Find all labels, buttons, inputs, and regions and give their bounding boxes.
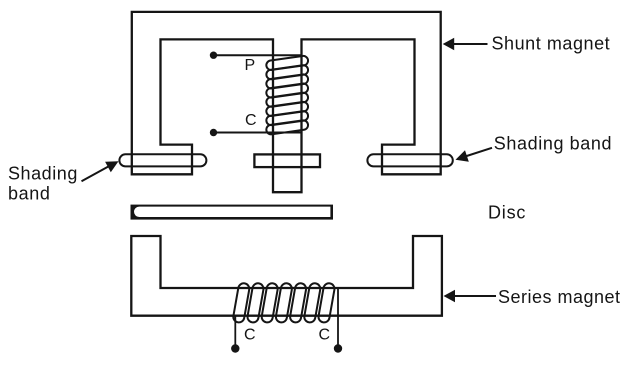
shunt magnet core (E-shape) (132, 12, 441, 192)
svg-text:Series magnet: Series magnet (498, 287, 621, 307)
pole crossbar on central limb (254, 154, 320, 167)
node C terminal dot (shunt) (210, 129, 217, 136)
svg-text:Disc: Disc (488, 202, 526, 222)
svg-text:Shading: Shading (8, 163, 78, 183)
svg-text:C: C (319, 327, 331, 344)
svg-text:P: P (245, 57, 256, 74)
series coil (current coil) turns (232, 282, 335, 323)
svg-text:Shading band: Shading band (494, 134, 612, 154)
series coil right lead wire (337, 288, 339, 346)
svg-text:C: C (245, 112, 257, 129)
svg-text:Shunt magnet: Shunt magnet (492, 33, 611, 53)
arrow to series magnet (444, 290, 497, 303)
node P terminal dot (210, 52, 217, 59)
arrow to shunt magnet (443, 38, 488, 51)
svg-text:band: band (8, 183, 50, 203)
svg-text:C: C (244, 327, 256, 344)
series coil right terminal dot (334, 344, 342, 352)
disc (131, 205, 334, 220)
arrow to right shading band (456, 148, 493, 162)
series coil left terminal dot (231, 344, 239, 352)
series coil left lead wire (234, 316, 236, 346)
wire C lead (shunt) (214, 132, 302, 134)
series magnet core (U-shape) (131, 236, 442, 316)
wire P lead (214, 54, 302, 56)
shading band right (367, 154, 452, 166)
arrow to left shading band (82, 161, 119, 181)
shading band left (119, 154, 206, 166)
shunt coil (pressure coil) turns (266, 55, 309, 135)
